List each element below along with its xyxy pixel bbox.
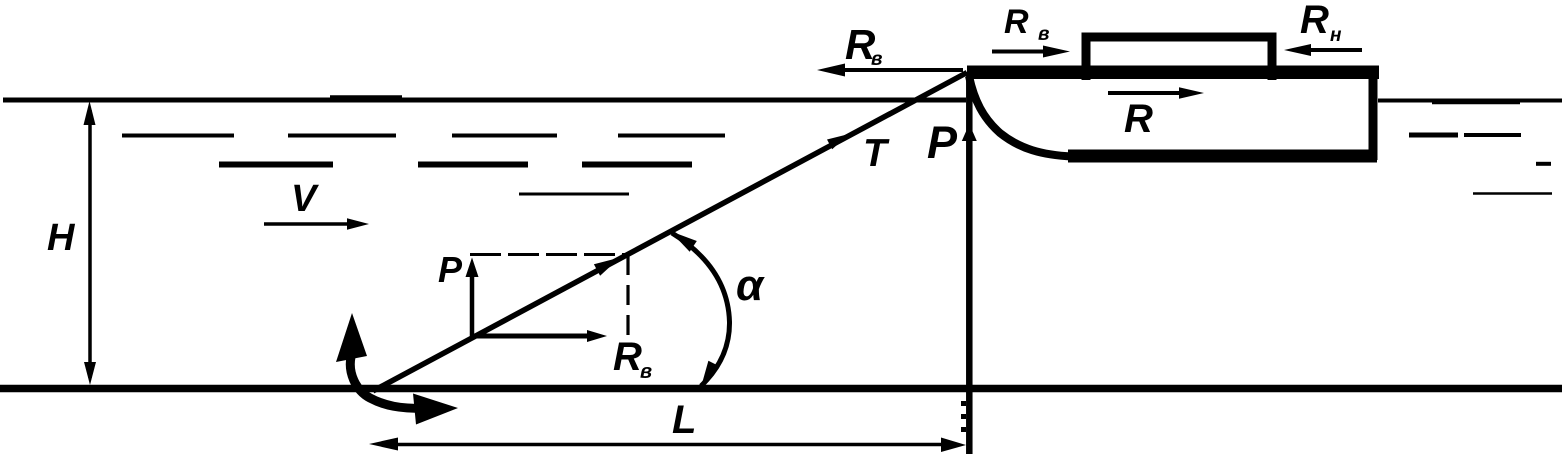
water surface thick patch left [330,95,402,102]
dimension H bottom arrowhead [84,362,96,385]
vessel bow curve [969,76,1072,157]
water surface line [3,98,966,103]
dimension L right arrowhead [941,438,966,453]
force R arrow inside hull [1108,91,1184,95]
dimension L line [380,443,950,447]
svg-text:R: R [613,335,642,379]
angle arc bottom arrowhead [701,361,720,387]
water dash row 2 [219,162,692,168]
water dashes right of vessel [1409,133,1458,138]
water dash row 1 [122,134,725,138]
tick marks on vertical line [961,401,966,406]
force Rb arrow pointing left [838,68,963,72]
svg-text:α: α [736,261,765,310]
dimension H line [88,110,92,378]
svg-text:R: R [1300,0,1329,42]
svg-text:в: в [1038,24,1049,45]
svg-text:н: н [1330,25,1342,46]
moment arrow right arrowhead [413,394,458,425]
moment arrow top arrowhead [336,313,367,362]
force Rv arrow above deck [992,50,1046,54]
vessel bottom bar [1068,150,1377,163]
force Rn arrow pointing left [1308,48,1362,52]
vessel cabin [1086,37,1272,80]
svg-text:T: T [863,132,890,175]
parallelogram dashed top side [470,253,626,256]
water surface line right of vessel [1378,99,1562,103]
water surface thick patch right [1432,99,1520,105]
resultant T arrowhead on cable [594,258,620,276]
angle arc alpha [672,233,730,386]
dimension L left arrowhead [369,438,398,451]
vessel deck bar [967,66,1379,80]
svg-text:L: L [672,398,696,442]
velocity arrow V [264,222,352,226]
svg-text:в: в [871,49,882,70]
moment curved arrow at anchor [350,357,424,409]
parallelogram dashed right side [626,255,629,336]
anchor cable T wire [373,73,967,392]
force Rg horizontal arrow [472,334,588,339]
vessel stern wall [1369,72,1378,160]
dimension H top arrowhead [84,101,96,125]
water dash row 3 [519,193,629,196]
angle arc top arrowhead [670,231,697,252]
svg-text:H: H [47,217,76,259]
vertical line from bow to dimension base [966,72,973,454]
svg-text:V: V [291,178,319,220]
svg-text:R: R [1124,97,1153,141]
svg-text:в: в [640,361,652,383]
ground line [0,385,1562,393]
svg-text:P: P [927,117,958,168]
force P at vessel arrowhead [962,124,977,141]
svg-text:R: R [1004,3,1029,41]
cable arrowhead near T [827,134,849,149]
svg-text:P: P [438,249,463,290]
force P at parallelogram arrow [470,272,475,336]
